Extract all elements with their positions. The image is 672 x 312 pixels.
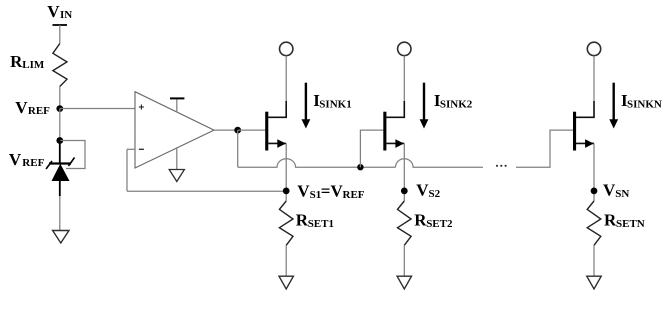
resistor RLIM (53, 44, 67, 87)
svg-text:V: V (15, 98, 28, 117)
wire gate bus segment with hop over Q1 source (238, 159, 396, 168)
svg-text:REF: REF (343, 189, 365, 201)
label ISINK1 (313, 91, 351, 111)
op-amp U1 body (135, 92, 214, 168)
wire Q1 source down (285, 143, 287, 201)
svg-text:SET1: SET1 (308, 218, 334, 230)
op-amp minus input marker (139, 148, 144, 150)
transistor QN drain terminal circle (587, 42, 600, 55)
wire VREF node to op-amp + input (60, 108, 135, 110)
label RSET2 (414, 210, 453, 230)
zener diode VREF triangle (52, 164, 70, 181)
op-amp ground stub (176, 149, 178, 170)
transistor Q1 drain terminal circle (280, 42, 293, 55)
wire RSET2 to ground (403, 245, 405, 276)
wire feedback vertical (126, 149, 128, 191)
op-amp plus input marker (139, 105, 144, 110)
label ISINKN (621, 91, 662, 111)
resistor RSETN (587, 201, 601, 245)
svg-text:V: V (47, 2, 60, 21)
svg-text:IN: IN (60, 9, 72, 21)
ground RSETN (587, 276, 601, 289)
svg-text:=V: =V (321, 181, 344, 200)
node VSN junction dot (591, 188, 598, 195)
svg-text:S2: S2 (429, 188, 441, 200)
node op-amp output junction dot (234, 127, 241, 134)
wire gate bus hop over Q2 source (396, 159, 484, 168)
wire zener anode to ground (59, 196, 61, 231)
node VREF junction dot (56, 105, 63, 112)
wire RLIM to VREF node (59, 87, 61, 109)
wire QN source down (593, 143, 595, 201)
wire RSET1 to ground (285, 245, 287, 276)
svg-text:SINK2: SINK2 (440, 99, 473, 111)
zener diode VREF cathode lead (59, 141, 61, 164)
svg-text:V: V (9, 150, 22, 169)
label VS1 = VREF (297, 181, 364, 201)
svg-text:REF: REF (28, 105, 50, 117)
ellipsis continuation dots (496, 165, 507, 167)
svg-text:R: R (10, 52, 23, 71)
wire reference loop around zener (60, 141, 85, 169)
node zener cathode junction dot (56, 137, 63, 144)
wire Q2 drain (403, 56, 405, 101)
label VREF zener (9, 150, 45, 169)
wire VIN bar to RLIM (59, 25, 61, 44)
svg-text:SETN: SETN (616, 218, 645, 230)
wire gate bus segment N (516, 130, 573, 167)
op-amp power bar (170, 97, 184, 99)
wire gate Q1 (238, 129, 266, 131)
current arrow ISINK1 (302, 83, 311, 129)
svg-text:REF: REF (22, 157, 44, 169)
wire QN drain (593, 56, 595, 101)
svg-text:SINKN: SINKN (627, 99, 662, 111)
resistor RSET2 (398, 201, 412, 245)
label RSETN (604, 210, 645, 230)
wire op-amp output (214, 129, 238, 131)
resistor RSET1 (279, 201, 293, 245)
ground RSET2 (397, 276, 411, 289)
ground RSET1 (279, 276, 293, 289)
svg-text:V: V (416, 181, 429, 200)
svg-text:V: V (603, 181, 616, 200)
op-amp power stub (176, 98, 178, 112)
label VREF node (15, 98, 50, 117)
wire gate bus tap down (237, 130, 239, 167)
transistor Q2 drain terminal circle (398, 42, 411, 55)
node VS1 junction dot (283, 188, 290, 195)
zener anode lead (59, 181, 61, 196)
wire Q1 drain (285, 56, 287, 101)
svg-text:SN: SN (615, 188, 629, 200)
label VS2 (416, 181, 440, 201)
label RSET1 (296, 210, 334, 230)
wire op-amp minus input stub (127, 148, 135, 150)
transistor Q1 (265, 101, 286, 151)
svg-text:SET2: SET2 (426, 218, 453, 230)
label VSN (603, 181, 629, 201)
svg-text:V: V (297, 181, 310, 200)
node VIN label (47, 2, 72, 21)
svg-text:LIM: LIM (22, 59, 45, 71)
ground zener (53, 231, 69, 244)
wire Q2 source down (403, 143, 405, 201)
power terminal VIN bar (53, 24, 68, 26)
svg-text:SINK1: SINK1 (319, 99, 351, 111)
transistor QN (573, 101, 594, 151)
current arrow ISINK2 (420, 83, 429, 129)
label RLIM (10, 52, 45, 71)
node gate bus tap Q2 junction dot (357, 164, 363, 170)
label ISINK2 (434, 91, 473, 111)
wire VREF node down to zener node (59, 109, 61, 141)
wire gate Q2 riser (360, 130, 383, 167)
node VS2 junction dot (401, 188, 408, 195)
ground op-amp (169, 170, 184, 182)
svg-text:S1: S1 (310, 189, 322, 201)
transistor Q2 (383, 101, 404, 151)
wire RSETN to ground (593, 245, 595, 276)
zener diode VREF cathode bar (46, 158, 75, 170)
current arrow ISINKN (609, 83, 618, 129)
wire feedback horizontal to VS1 (127, 190, 286, 192)
